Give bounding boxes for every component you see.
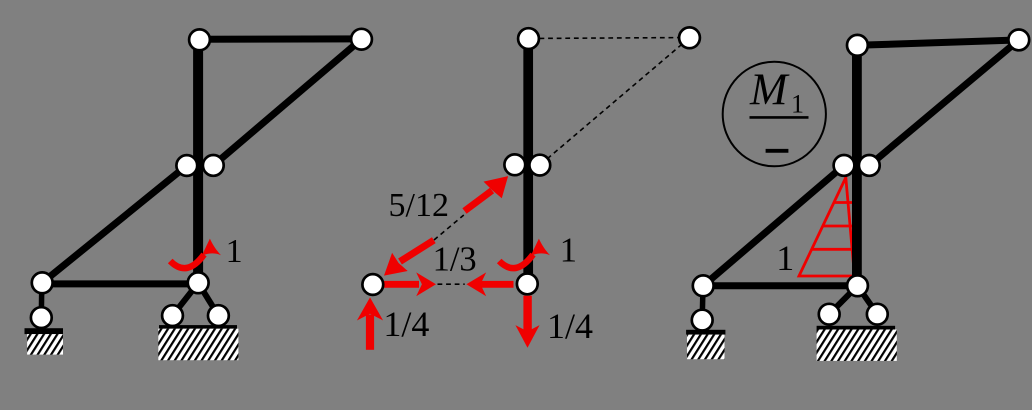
svg-text:1/3: 1/3 xyxy=(433,240,477,278)
ground line center support (fig1) xyxy=(159,325,237,329)
force arrow 1/3 right head (fig2) xyxy=(416,272,436,296)
force arrow 5/12 up-right head (fig2) xyxy=(484,176,509,198)
upper diagonal member (fig1) xyxy=(213,39,361,165)
node circle top-right phantom (fig2) xyxy=(679,27,700,48)
node circle top (fig2) xyxy=(518,28,539,49)
dashed bottom segment (fig2) xyxy=(438,283,465,285)
fraction bar (fig3) xyxy=(750,116,809,119)
svg-text:1: 1 xyxy=(776,238,794,278)
joint circle bottom-left (fig1) xyxy=(32,272,53,293)
hinge circle mid-left (fig3) xyxy=(834,155,855,176)
unit moment arc (fig2) xyxy=(499,255,533,269)
support circle right leg (fig3) xyxy=(867,304,888,325)
ground line center support (fig3) xyxy=(817,326,896,330)
reaction arrow 1/4 up shaft (fig2) xyxy=(366,315,374,350)
ground line left support (fig1) xyxy=(25,328,64,334)
minus sign (fig3) xyxy=(766,149,789,153)
support circle left leg (fig1) xyxy=(162,305,183,326)
pendulum lower circle (fig1) xyxy=(31,307,52,328)
unit moment arc (fig1) xyxy=(170,255,204,269)
pendulum link left support (fig3) xyxy=(699,286,705,320)
hatched foundation block left (fig1) xyxy=(27,334,63,355)
force arrow 5/12 down-left head (fig2) xyxy=(384,253,408,276)
force arrow 1/3 right shaft (fig2) xyxy=(382,281,419,288)
column (fig3) xyxy=(852,45,862,285)
M1 circle label (fig3) xyxy=(723,62,826,167)
unit moment arrowhead (fig2) xyxy=(531,239,551,257)
lower diagonal member (fig3) xyxy=(703,165,844,285)
reaction arrow 1/4 up head (fig2) xyxy=(357,297,383,320)
moment diagram triangle (fig3) xyxy=(799,178,855,277)
right leg of center support (fig3) xyxy=(858,286,878,314)
moment diagram hatch line 1 (fig3) xyxy=(834,201,855,204)
top beam (fig3) xyxy=(857,40,1018,45)
hinge circle top-right (fig3) xyxy=(1008,30,1029,51)
hinge circle mid-right (fig2) xyxy=(529,155,550,176)
support circle right leg (fig1) xyxy=(208,305,229,326)
hinge circle top-left (fig1) xyxy=(189,29,210,50)
hinge circle top-left (fig3) xyxy=(847,35,868,56)
dashed upper diagonal (fig2) xyxy=(548,44,682,158)
bottom beam (fig3) xyxy=(703,282,857,289)
hatched foundation block center (fig3) xyxy=(817,330,897,361)
joint circle bottom-center (fig3) xyxy=(847,275,868,296)
joint circle bottom-left (fig3) xyxy=(693,275,714,296)
joint circle bottom-center (fig1) xyxy=(188,272,209,293)
unit moment arrowhead (fig1) xyxy=(202,239,222,257)
pendulum link left support (fig1) xyxy=(39,283,45,318)
hatched foundation block left (fig3) xyxy=(687,335,725,360)
hatched foundation block center (fig1) xyxy=(158,329,238,361)
svg-text:1/4: 1/4 xyxy=(547,306,593,346)
column (fig1) xyxy=(193,40,203,284)
force arrow 1/3 left shaft (fig2) xyxy=(480,281,514,288)
bottom beam (fig1) xyxy=(42,280,198,287)
force arrow 1/3 left head (fig2) xyxy=(466,272,486,296)
svg-text:1: 1 xyxy=(791,90,804,119)
force arrow 5/12 up-right shaft (fig2) xyxy=(465,191,493,212)
reaction arrow 1/4 down head (fig2) xyxy=(515,325,539,348)
svg-text:1: 1 xyxy=(560,231,577,269)
pendulum lower circle (fig3) xyxy=(692,310,713,331)
node circle bottom-left (fig2) xyxy=(362,274,383,295)
hinge circle mid-right (fig3) xyxy=(859,155,880,176)
lower diagonal member (fig1) xyxy=(42,166,187,283)
left leg of center support (fig1) xyxy=(173,283,199,316)
reaction arrow 1/4 down shaft (fig2) xyxy=(523,296,531,332)
hinge circle mid-right (fig1) xyxy=(203,155,224,176)
dashed top chord (fig2) xyxy=(540,37,679,40)
hinge circle mid-left (fig1) xyxy=(176,155,197,176)
top beam (fig1) xyxy=(200,35,362,42)
ground line left support (fig3) xyxy=(686,330,725,335)
svg-text:1: 1 xyxy=(226,233,243,270)
support circle left leg (fig3) xyxy=(819,304,840,325)
column (fig2) xyxy=(523,39,533,284)
left leg of center support (fig3) xyxy=(829,286,857,314)
dashed lower diagonal segment (fig2) xyxy=(434,215,464,240)
moment diagram hatch line 2 (fig3) xyxy=(823,225,855,228)
hinge circle top-right (fig1) xyxy=(351,29,372,50)
node circle bottom-center (fig2) xyxy=(517,274,538,295)
svg-text:1/4: 1/4 xyxy=(383,304,429,344)
svg-text:M: M xyxy=(749,65,790,115)
force arrow 5/12 down-left shaft (fig2) xyxy=(400,240,434,261)
right leg of center support (fig1) xyxy=(198,283,218,316)
moment diagram hatch line 3 (fig3) xyxy=(812,248,855,251)
upper diagonal member (fig3) xyxy=(869,40,1019,165)
hinge circle mid-left (fig2) xyxy=(504,154,525,175)
svg-text:5/12: 5/12 xyxy=(389,187,449,224)
